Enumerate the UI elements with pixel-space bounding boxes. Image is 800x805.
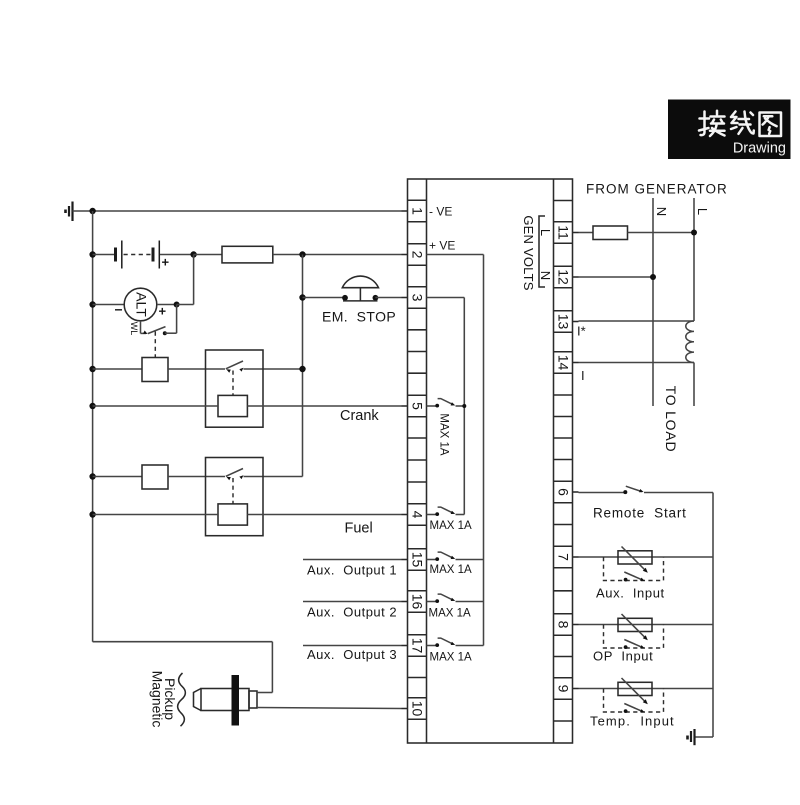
svg-text:8: 8 [555,621,571,629]
svg-text:MAX 1A: MAX 1A [430,520,473,532]
svg-text:1: 1 [409,207,425,215]
svg-text:Temp. Input: Temp. Input [590,714,675,729]
svg-text:17: 17 [409,638,425,654]
svg-text:GEN VOLTS: GEN VOLTS [521,215,536,290]
svg-text:4: 4 [409,511,425,519]
svg-text:Fuel: Fuel [345,520,373,536]
svg-text:FROM GENERATOR: FROM GENERATOR [586,182,728,197]
svg-text:+: + [159,304,167,319]
svg-text:WL: WL [129,322,139,336]
svg-text:L: L [695,208,710,215]
svg-text:Remote Start: Remote Start [593,506,687,521]
svg-text:I*: I* [577,324,586,339]
svg-text:3: 3 [409,294,425,302]
svg-text:7: 7 [555,553,571,561]
svg-text:ALT: ALT [133,292,149,317]
svg-text:10: 10 [409,701,425,717]
svg-text:Pickup: Pickup [162,678,178,720]
svg-text:MAX 1A: MAX 1A [438,413,450,456]
svg-text:Aux. Output 2: Aux. Output 2 [307,605,397,620]
svg-text:Aux. Input: Aux. Input [596,586,665,601]
svg-text:+: + [162,255,170,270]
svg-text:- VE: - VE [429,205,452,219]
svg-text:Drawing: Drawing [733,141,786,157]
svg-text:15: 15 [409,552,425,568]
svg-text:MAX 1A: MAX 1A [429,608,472,620]
svg-text:Aux. Output 3: Aux. Output 3 [307,647,397,662]
svg-text:6: 6 [555,488,571,496]
svg-text:TO LOAD: TO LOAD [663,386,679,453]
svg-text:12: 12 [555,269,571,285]
svg-text:+ VE: + VE [429,239,455,253]
svg-text:Aux. Output 1: Aux. Output 1 [307,563,397,578]
svg-text:Crank: Crank [340,408,379,424]
svg-text:I: I [581,368,585,383]
svg-text:5: 5 [409,402,425,410]
svg-text:11: 11 [555,225,571,240]
svg-text:2: 2 [409,251,425,259]
svg-text:OP Input: OP Input [593,649,653,664]
svg-text:MAX 1A: MAX 1A [430,652,473,664]
svg-text:EM. STOP: EM. STOP [322,309,396,325]
svg-text:13: 13 [555,314,571,330]
svg-text:16: 16 [409,594,425,610]
svg-text:9: 9 [555,685,571,693]
svg-text:MAX 1A: MAX 1A [430,564,473,576]
svg-text:N: N [654,207,669,216]
svg-text:L: L [538,229,553,236]
svg-text:14: 14 [555,355,571,371]
svg-text:N: N [538,271,553,280]
